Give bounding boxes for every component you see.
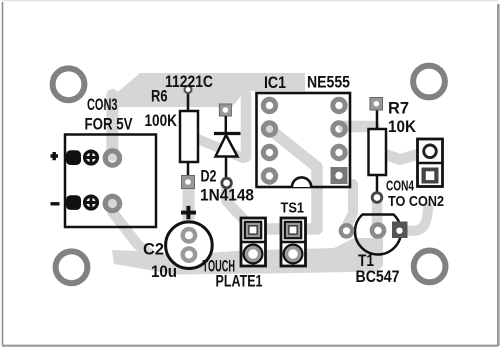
- svg-text:PLATE1: PLATE1: [216, 272, 263, 291]
- svg-text:10K: 10K: [388, 117, 417, 136]
- svg-text:BC547: BC547: [356, 267, 400, 286]
- svg-text:10u: 10u: [151, 262, 177, 281]
- svg-text:TS1: TS1: [281, 200, 305, 217]
- svg-text:C2: C2: [143, 240, 164, 259]
- svg-text:NE555: NE555: [307, 73, 350, 92]
- svg-text:CON4: CON4: [386, 178, 414, 195]
- svg-text:11221C: 11221C: [165, 72, 213, 91]
- svg-text:FOR 5V: FOR 5V: [85, 115, 134, 134]
- svg-text:R7: R7: [388, 99, 409, 118]
- svg-text:R6: R6: [151, 87, 168, 106]
- svg-text:IC1: IC1: [264, 73, 286, 92]
- svg-text:D2: D2: [201, 167, 217, 186]
- svg-text:1N4148: 1N4148: [200, 186, 254, 205]
- svg-text:TO CON2: TO CON2: [388, 193, 444, 210]
- svg-text:100K: 100K: [145, 111, 178, 130]
- svg-text:CON3: CON3: [87, 95, 118, 114]
